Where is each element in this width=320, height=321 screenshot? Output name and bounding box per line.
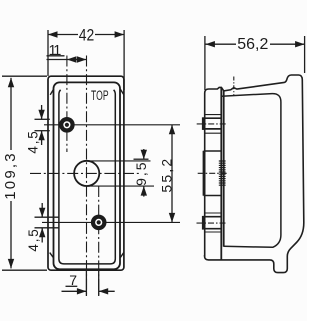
bulb axis centerline [233,77,235,96]
outer profile [205,75,304,273]
dim 4,5 bottom ticks [35,216,60,218]
svg-text:TOP: TOP [91,88,109,103]
corner tick top-right [120,89,124,95]
arrowheads front [8,31,175,294]
bottom stud bolt [203,217,221,229]
svg-text:4,5: 4,5 [25,129,40,153]
4,5 top arrows (outside) [38,110,44,120]
11 arrows [67,56,77,62]
corner tick bottom-right [120,252,124,257]
body back wall lines [220,87,222,260]
circle top tangent extension [87,160,151,162]
4,5 bottom arrows [39,208,45,218]
dim 11: underline + dim line [47,55,65,57]
svg-text:42: 42 [79,26,95,44]
middle connector box [204,151,222,196]
bottom stud [91,215,107,231]
svg-text:55,2: 55,2 [159,157,175,193]
svg-text:11: 11 [48,43,61,59]
dim 7 [66,285,78,287]
dimension texts front [2,26,175,288]
vertical centerline bottom stud [98,186,100,296]
horizontal centerline through circle [30,172,140,174]
corner tick bottom-left [50,253,54,258]
top stud boss [205,114,222,116]
bottom stud boss [205,212,222,214]
front view: mounting plate outline [48,76,124,270]
dim 55,2 [171,125,173,223]
hatch on back wall hole [219,161,226,185]
front view: lens inner edge (open top) [59,90,115,264]
top stud bolt [203,118,221,129]
55,2 arrows (inside) [169,125,175,135]
9,5 arrows (outside) [141,150,147,160]
42 arrows [48,31,58,37]
dim 109,3 line [10,78,12,150]
vertical centerline through circle [86,56,88,297]
svg-text:109,3: 109,3 [2,151,19,200]
inner top line [222,94,281,248]
dim 42: extension lines [47,30,49,76]
circle (lamp center hole) [74,161,99,186]
dim 42: line [48,34,78,36]
top stud horizontal line [44,124,180,126]
dim 109,3 ext lines [2,75,47,77]
7 arrows (outside) [77,288,87,294]
svg-text:56,2: 56,2 [237,36,268,53]
circle bottom tangent extension [87,185,154,187]
svg-text:7: 7 [69,272,77,288]
svg-text:4,5: 4,5 [26,227,41,251]
stud centerlines [197,123,227,125]
svg-text:9,5: 9,5 [133,160,149,185]
bottom stud horizontal line [42,221,180,223]
side view dimension 56,2 [205,36,305,90]
top stud [59,117,75,133]
corner tick top-left [50,89,54,95]
dim 4,5 top ticks [35,118,50,120]
109,3 arrows [8,78,14,88]
dim 9,5 [134,158,149,160]
vertical centerline top stud [66,56,68,153]
front view: lamp outer body [54,82,121,269]
